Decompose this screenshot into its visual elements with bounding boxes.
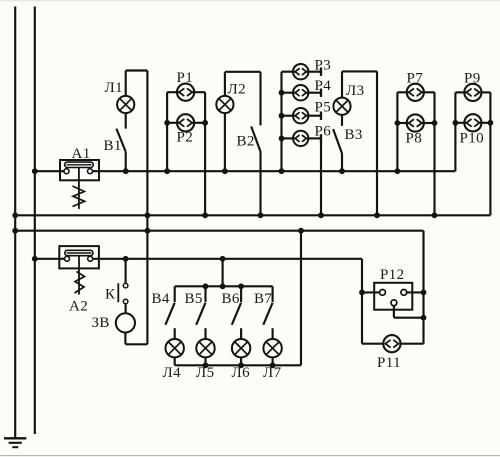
wire: P6 right leg <box>320 138 322 215</box>
lamp L5 <box>196 339 214 357</box>
wire: bell lower lead <box>124 333 126 345</box>
svg-text:А2: А2 <box>69 299 88 315</box>
svg-text:Л4: Л4 <box>163 365 182 381</box>
wire: K upper lead <box>125 259 127 284</box>
socket P10 <box>464 114 481 131</box>
scan edge top <box>0 0 500 2</box>
node: long line on bus3 <box>145 228 151 234</box>
wire: V7 drop <box>272 286 274 302</box>
node: P3-P6 left on bus1 <box>279 168 285 174</box>
node: V6 on row <box>238 283 244 289</box>
ground <box>4 438 26 447</box>
node: L6 on bottom <box>238 362 244 368</box>
node: switch-row tap <box>220 256 226 262</box>
label K <box>105 287 116 303</box>
fuse-breaker A2 box <box>59 246 99 268</box>
svg-text:К: К <box>105 287 116 303</box>
wire: switch-row feed <box>222 259 224 287</box>
node: A2 feed on line2 <box>32 256 38 262</box>
node: feed on row <box>220 283 226 289</box>
svg-text:Р2: Р2 <box>177 130 194 146</box>
svg-text:Р6: Р6 <box>315 124 332 140</box>
fuse-breaker A2 spring <box>75 272 85 294</box>
node: P1P2 left on bus1 <box>164 168 170 174</box>
button K contact 2 <box>123 299 128 304</box>
wire: L5 top lead <box>204 328 206 339</box>
fuse-breaker A1 stem <box>78 168 80 209</box>
lamp L4 <box>166 339 184 357</box>
label V5 <box>185 291 203 307</box>
wire: V5 drop <box>204 286 206 302</box>
wire: P7 right lead <box>421 91 435 93</box>
wire: P2 right lead <box>191 122 205 124</box>
wire: P5 right lead <box>305 115 321 117</box>
label V1 <box>104 138 122 154</box>
wire: L1 top lead <box>125 71 127 97</box>
wire: L2 branch top <box>225 71 261 73</box>
switch V1 blade <box>116 129 125 152</box>
wire: K to bell <box>125 304 127 314</box>
switch V3 blade <box>333 129 342 153</box>
svg-text:Р8: Р8 <box>406 131 423 147</box>
wire: switch-row top <box>175 285 273 287</box>
socket P12 pin left <box>380 290 386 296</box>
node: V2 on bus2 <box>258 212 264 218</box>
wire: P1 left lead <box>167 91 180 93</box>
socket box P12 <box>374 283 412 310</box>
wire: V2 lower leg <box>259 152 261 216</box>
button K actuator <box>117 283 119 302</box>
terminal pin P4 <box>320 89 322 97</box>
node: P9P10 right at P10 <box>488 120 494 126</box>
wire: P10 left lead <box>455 122 467 124</box>
node: bus1-line2 junction <box>32 168 38 174</box>
wire: L4 bottom lead <box>174 357 176 365</box>
label V4 <box>152 291 170 307</box>
wire: L6 top lead <box>240 328 242 339</box>
wire: P8 right lead <box>421 122 435 124</box>
lamp L7 <box>263 339 281 357</box>
svg-text:Р7: Р7 <box>407 71 424 87</box>
node: P12 left node <box>359 290 365 296</box>
wire: P9P10 left leg <box>454 92 456 171</box>
wire: L2 lower lead <box>224 113 226 171</box>
socket P6 <box>293 131 308 146</box>
wire: P12 bottom pin drop <box>394 306 424 318</box>
label P9 <box>464 71 481 87</box>
label P3 <box>315 58 332 74</box>
svg-text:Р10: Р10 <box>460 131 485 147</box>
socket P1 <box>177 84 194 101</box>
socket P8 <box>407 114 424 131</box>
terminal pin P5 <box>320 112 322 120</box>
wire: P3-P6 left leg <box>280 72 282 172</box>
node: P7P8 left on bus1 <box>395 168 401 174</box>
svg-text:А1: А1 <box>72 146 91 162</box>
wire: L3 right leg <box>376 71 378 215</box>
wire: L2 top lead <box>224 72 226 96</box>
fuse-breaker A1 box <box>60 160 99 180</box>
wire: bell return <box>125 343 147 345</box>
svg-text:ЗВ: ЗВ <box>92 315 110 331</box>
node: P7P8 right at P8 <box>432 120 438 126</box>
node: lamp return on bus3 <box>298 228 304 234</box>
label V6 <box>222 291 240 307</box>
svg-text:В2: В2 <box>237 134 255 150</box>
svg-text:В7: В7 <box>254 291 272 307</box>
node: P3-P6 left at P4 <box>279 90 285 96</box>
label P4 <box>315 78 332 94</box>
wire: P12 right lead <box>407 291 424 293</box>
node: P3-P6 left at P5 <box>279 113 285 119</box>
socket P3 <box>293 64 308 79</box>
label P11 <box>377 355 401 371</box>
switch V7 blade <box>263 303 272 325</box>
node: P12 bottom on down-leg <box>421 315 427 321</box>
wire: V6 drop <box>240 286 242 302</box>
socket P2 <box>177 114 194 131</box>
socket P4 <box>293 85 308 100</box>
node: L7 on bottom <box>270 362 276 368</box>
lamp L1 <box>117 96 134 113</box>
label P2 <box>177 130 194 146</box>
svg-text:В4: В4 <box>152 291 170 307</box>
wire: long return line <box>146 71 148 345</box>
svg-text:Р1: Р1 <box>177 70 194 86</box>
node: L3 right on bus2 <box>374 212 380 218</box>
fuse-breaker A2 terminal right <box>88 256 93 261</box>
label L3 <box>346 83 364 99</box>
switch V4 blade <box>165 303 174 325</box>
fuse-breaker A2 stem <box>78 256 80 295</box>
node: L5 on bottom <box>203 362 209 368</box>
svg-text:В5: В5 <box>185 291 203 307</box>
switch V2 blade <box>251 126 260 151</box>
label V7 <box>254 291 272 307</box>
terminal pin P6 <box>320 134 322 142</box>
wire: return bus 2 <box>15 214 490 216</box>
fuse-breaker A2 terminal left <box>65 256 70 261</box>
wire: P4 right lead <box>305 92 321 94</box>
wire: P9P10 right leg <box>489 92 491 215</box>
svg-text:Р5: Р5 <box>315 100 332 116</box>
wire: bus3 down-leg <box>422 231 424 344</box>
wire: L3 branch top <box>342 70 377 72</box>
node: long line on bus2 <box>145 212 151 218</box>
wire: lamp row return <box>300 231 302 366</box>
lamp L6 <box>232 339 250 357</box>
socket P9 <box>464 84 481 101</box>
node: V3 on bus1 <box>339 168 345 174</box>
svg-text:Р4: Р4 <box>315 78 332 94</box>
wire: top feeder bus (through A1), left part <box>35 170 65 172</box>
wire: P2 left lead <box>167 122 180 124</box>
wire: P3 right lead <box>305 71 321 73</box>
node: P1P2 right at P2 <box>202 120 208 126</box>
node: V1 on bus1 <box>123 168 129 174</box>
wire: P7P8 left leg <box>396 92 398 171</box>
wire: L6 bottom lead <box>240 357 242 365</box>
label L2 <box>228 82 246 98</box>
button K contact 1 <box>123 283 128 288</box>
wire: P9 left lead <box>455 91 467 93</box>
label A2 <box>69 299 88 315</box>
socket P12 pin bottom <box>391 300 397 306</box>
fuse-breaker A1 spring <box>73 186 85 207</box>
label L6 <box>232 365 251 381</box>
svg-text:В6: В6 <box>222 291 240 307</box>
lamp L2 <box>216 96 233 113</box>
wire: vertical supply line 1 (grounded) <box>14 7 16 438</box>
wire: V1 lower lead <box>125 152 127 172</box>
node: bus3-line1 junction <box>12 228 18 234</box>
node: P3-P6 left at P6 <box>279 136 285 142</box>
fuse-breaker A2 cartridge <box>65 250 93 255</box>
socket P5 <box>293 108 308 123</box>
socket P12 pin right <box>401 290 407 296</box>
label A1 <box>72 146 91 162</box>
wire: top feeder bus, right part <box>92 170 455 172</box>
node: P6 on bus2 <box>318 212 324 218</box>
wire: V3 lower lead <box>341 153 343 171</box>
wire: P6 left lead <box>282 137 297 139</box>
label L5 <box>196 365 214 381</box>
label P7 <box>407 71 424 87</box>
wire: P12 left lead <box>362 291 380 293</box>
wire: return bus 3 <box>15 230 423 232</box>
node: P1P2 left at P2 <box>164 120 170 126</box>
node: P1P2 right on bus2 <box>202 212 208 218</box>
wire: P11 right lead <box>400 343 423 345</box>
wire: L3 top lead <box>341 71 343 97</box>
svg-text:Л1: Л1 <box>105 80 123 96</box>
wire: P8 left lead <box>397 122 409 124</box>
label P12 <box>380 267 405 283</box>
fuse-breaker A1 terminal right <box>88 169 93 174</box>
svg-text:Р12: Р12 <box>380 267 405 283</box>
wire: P11 left lead <box>362 343 383 345</box>
socket P7 <box>407 84 424 101</box>
wire: vertical supply line 2 <box>34 7 36 435</box>
wire: P1P2 right leg <box>204 92 206 215</box>
label ZV <box>92 315 110 331</box>
wire: line2 to A2 <box>35 258 65 260</box>
wire: P1P2 left leg <box>166 92 168 171</box>
node: L2 on bus1 <box>222 168 228 174</box>
svg-text:Л3: Л3 <box>346 83 364 99</box>
wire: L7 top lead <box>272 328 274 339</box>
node: P7P8 left at P8 <box>395 120 401 126</box>
label L7 <box>263 365 282 381</box>
bell ZV <box>116 313 135 332</box>
label P8 <box>406 131 423 147</box>
fuse-breaker A1 cartridge <box>65 162 94 167</box>
wire: V3-L3 lead <box>341 115 343 126</box>
wire: P7P8 right leg <box>433 92 435 215</box>
label V2 <box>237 134 255 150</box>
svg-text:В3: В3 <box>345 127 363 143</box>
wire: L7 bottom lead <box>272 357 274 365</box>
label P10 <box>460 131 485 147</box>
svg-text:Л2: Л2 <box>228 82 246 98</box>
svg-text:Р3: Р3 <box>315 58 332 74</box>
label P6 <box>315 124 332 140</box>
wire: L5 bottom lead <box>204 357 206 365</box>
wire: P5 left lead <box>282 115 297 117</box>
wire: P6 right lead <box>305 137 321 139</box>
label L4 <box>163 365 182 381</box>
terminal pin P3 <box>320 68 322 76</box>
wire: P3 left lead <box>282 71 297 73</box>
wire: lamp row bottom <box>175 364 301 366</box>
lamp L3 <box>333 98 350 115</box>
fuse-breaker A1 terminal left <box>64 169 69 174</box>
wire: P4 left lead <box>282 92 297 94</box>
wire: L4 top lead <box>174 328 176 339</box>
wire: A2 output run <box>93 258 363 260</box>
svg-text:Р11: Р11 <box>377 355 401 371</box>
switch V5 blade <box>196 303 205 325</box>
node: P9P10 left at P10 <box>453 120 459 126</box>
label P1 <box>177 70 194 86</box>
node: bell tap <box>123 256 129 262</box>
label P5 <box>315 100 332 116</box>
switch V6 blade <box>232 303 241 325</box>
label V3 <box>345 127 363 143</box>
svg-text:В1: В1 <box>104 138 122 154</box>
wire: V1-L1 lead <box>125 113 127 129</box>
socket P11 <box>383 335 400 352</box>
wire: V4 drop <box>174 286 176 302</box>
node: P12 right node <box>421 290 427 296</box>
wire: L1 branch top <box>126 69 148 71</box>
wire: A2 run down-leg <box>361 259 363 344</box>
node: P7P8 right on bus2 <box>432 212 438 218</box>
node: bus2-line1 junction <box>12 212 18 218</box>
node: V5 on row <box>203 283 209 289</box>
wire: V2 upper lead <box>259 72 261 126</box>
svg-text:Р9: Р9 <box>464 71 481 87</box>
wire: P1 right lead <box>191 91 205 93</box>
wire: P7 left lead <box>397 91 409 93</box>
wire: P10 right lead <box>479 122 491 124</box>
wire: P9 right lead <box>479 91 491 93</box>
scan edge bottom <box>0 455 500 457</box>
label L1 <box>105 80 123 96</box>
